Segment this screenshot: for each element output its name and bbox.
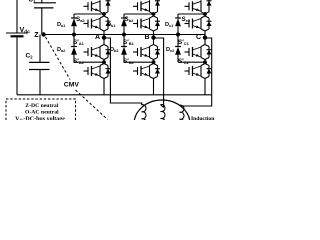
svg-text:C2: C2 <box>26 53 34 60</box>
dc source V_dc - short thick plate <box>11 35 24 37</box>
label A <box>95 34 100 41</box>
legend line 1 <box>25 103 58 109</box>
svg-text:S′A1: S′A1 <box>73 39 85 46</box>
label Da1 <box>57 22 65 28</box>
label Da2 <box>57 47 65 53</box>
diode Da2 <box>71 47 77 55</box>
legend box (dashed) <box>6 99 76 120</box>
wire - clamp branch C lower <box>177 55 179 62</box>
wire - clamp bottom junction B <box>124 61 154 63</box>
node - clamp B on Z bus <box>122 33 126 37</box>
diode Db2 <box>121 47 127 55</box>
label induction machine <box>191 116 215 122</box>
inductor - phase C winding <box>180 105 185 126</box>
svg-text:Induction: Induction <box>191 116 215 120</box>
igbt Sa2 with antiparallel diode <box>84 16 111 31</box>
svg-text:Db2: Db2 <box>110 47 118 53</box>
svg-text:CMV: CMV <box>64 81 80 88</box>
wire - clamp branch A upper <box>73 14 75 18</box>
capacitor C1 - bottom plate <box>34 7 54 9</box>
wire - output B hook <box>154 38 164 108</box>
svg-text:Da1: Da1 <box>57 22 65 28</box>
svg-text:S′B1: S′B1 <box>123 39 135 46</box>
wire - leg A spine upper <box>103 14 105 16</box>
node - junction S'a1/S'a2/Da2 <box>102 60 106 64</box>
inductor - phase B winding <box>161 104 166 125</box>
wire - clamp bottom junction A <box>74 61 104 63</box>
wire - leg A spine lower <box>103 60 105 64</box>
diode Da2 - cathode bar <box>71 46 77 48</box>
igbt S'b1 with antiparallel diode <box>133 45 160 60</box>
label B <box>145 34 150 41</box>
capacitor C1 - top plate <box>34 2 56 4</box>
label S'c1 <box>178 39 190 46</box>
wire - leg B spine mid (crosses Z bus) <box>153 31 155 45</box>
label Db2 <box>110 47 118 53</box>
diode Db1 <box>121 18 127 26</box>
wire - leg C spine mid (crosses Z bus) <box>204 31 206 45</box>
wire - Z to C2 <box>39 35 41 63</box>
diode Dc2 <box>175 47 181 55</box>
wire - leg C spine lower <box>204 60 206 64</box>
label S'c2 <box>178 58 190 65</box>
diode Dc1 - cathode bar <box>175 17 181 19</box>
svg-text:A: A <box>95 34 100 41</box>
svg-text:Sa2: Sa2 <box>76 16 85 23</box>
node - junction S'c1/S'c2/Dc2 <box>203 60 207 64</box>
diode Db2 - cathode bar <box>121 46 127 48</box>
label S'b1 <box>123 39 135 46</box>
wire - leg B to bottom rail <box>153 79 155 95</box>
svg-text:C1: C1 <box>29 0 36 3</box>
igbt S'c2 with antiparallel diode <box>185 64 212 79</box>
label Z - dc neutral <box>34 32 39 39</box>
node Z - junction dot <box>41 32 45 36</box>
wire - clamp branch C middle <box>177 26 179 46</box>
svg-text:Vdc: Vdc <box>20 25 31 35</box>
wire - leg C to bottom rail <box>204 79 206 95</box>
label S'a1 <box>73 39 85 46</box>
wire - leg B spine upper <box>153 14 155 16</box>
svg-text:Sb2: Sb2 <box>125 16 135 23</box>
label S'b2 <box>123 58 135 65</box>
wire - battery bottom lead <box>16 37 18 94</box>
node - clamp A on Z bus <box>72 33 76 37</box>
node - junction Sa1/Sa2/Da1 <box>102 12 106 16</box>
label C <box>196 34 201 41</box>
capacitor C1 - partial label C1 (cropped) <box>29 0 36 3</box>
igbt S'a2 with antiparallel diode <box>84 64 111 79</box>
node - junction Sb1/Sb2/Db1 <box>152 12 156 16</box>
legend line 3 <box>15 116 65 122</box>
diode Dc1 <box>175 18 181 26</box>
svg-text:O-AC neutral: O-AC neutral <box>25 109 59 115</box>
wire - C2 to bottom rail <box>39 70 41 95</box>
wire - clamp branch B middle <box>123 26 125 46</box>
label Sa2 <box>76 16 85 23</box>
wire - clamp branch B upper <box>123 14 125 18</box>
wire - leg C spine upper <box>204 14 206 16</box>
igbt S'a1 with antiparallel diode <box>84 45 111 60</box>
dc source V_dc - long plate <box>6 32 28 34</box>
wire - clamp top junction B <box>124 13 154 15</box>
igbt S'c1 with antiparallel diode <box>185 45 212 60</box>
label Sb2 <box>125 16 135 23</box>
igbt Sa1 with antiparallel diode <box>84 0 111 14</box>
wire - C1 to node Z <box>41 8 43 35</box>
svg-text:Da2: Da2 <box>57 47 65 53</box>
wire - clamp branch C upper <box>177 14 179 18</box>
label C2 <box>26 53 34 60</box>
igbt Sb2 with antiparallel diode <box>133 16 160 31</box>
svg-text:Dc2: Dc2 <box>166 47 174 53</box>
label CMV <box>64 81 80 88</box>
inductor - phase A winding <box>142 103 147 126</box>
diode Dc2 - cathode bar <box>175 46 181 48</box>
capacitor C2 - top plate <box>29 61 50 63</box>
label Dc2 <box>166 47 174 53</box>
igbt Sb1 with antiparallel diode <box>133 0 160 14</box>
svg-text:B: B <box>145 34 150 41</box>
diode Db1 - cathode bar <box>121 17 127 19</box>
label Sc2 <box>182 16 191 23</box>
node C - output junction dot <box>203 35 207 39</box>
label Dc1 <box>165 22 173 28</box>
wire - Z neutral bus <box>44 34 205 36</box>
igbt Sc1 with antiparallel diode <box>185 0 212 14</box>
node - clamp C on Z bus <box>176 33 180 37</box>
wire - clamp branch A lower <box>73 55 75 62</box>
label S'a2 <box>73 58 85 65</box>
wire - bottom dc rail <box>17 94 212 96</box>
wire - clamp bottom junction C <box>178 61 205 63</box>
wire - output C hook <box>181 38 212 106</box>
dashed leader CMV to motor neutral <box>76 90 108 120</box>
capacitor C2 - bottom plate <box>29 69 50 71</box>
legend line 2 <box>25 109 59 115</box>
igbt S'b2 with antiparallel diode <box>133 64 160 79</box>
wire - clamp branch A middle <box>73 26 75 46</box>
node A - output junction dot <box>102 35 106 39</box>
capacitor C1 - top stub <box>41 0 43 3</box>
wire - leg A spine mid (crosses Z bus) <box>103 31 105 45</box>
svg-text:Vdc-DC-bus voltage: Vdc-DC-bus voltage <box>15 116 65 120</box>
wire - output A hook <box>104 38 143 103</box>
svg-text:Z: Z <box>34 32 39 39</box>
svg-text:C: C <box>196 34 201 41</box>
wire - clamp branch B lower <box>123 55 125 62</box>
svg-text:Z-DC neutral: Z-DC neutral <box>25 103 58 109</box>
label Db1 <box>107 22 115 28</box>
dashed leader Z to CMV <box>46 37 71 80</box>
svg-text:Db1: Db1 <box>107 22 115 28</box>
diode Da1 <box>71 18 77 26</box>
wire - battery top lead <box>16 0 18 33</box>
node - junction Sc1/Sc2/Dc1 <box>203 12 207 16</box>
wire - leg B spine lower <box>153 60 155 64</box>
induction machine - stator circle <box>134 100 190 148</box>
wire - clamp top junction C <box>178 13 205 15</box>
node B - output junction dot <box>151 35 155 39</box>
svg-text:Dc1: Dc1 <box>165 22 173 28</box>
diode Da1 - cathode bar <box>71 17 77 19</box>
node - junction S'b1/S'b2/Db2 <box>152 60 156 64</box>
wire - clamp top junction A <box>74 13 104 15</box>
igbt Sc2 with antiparallel diode <box>185 16 212 31</box>
wire - leg A to bottom rail <box>103 79 105 95</box>
label V_dc <box>20 25 31 35</box>
svg-text:S′C1: S′C1 <box>178 39 190 46</box>
